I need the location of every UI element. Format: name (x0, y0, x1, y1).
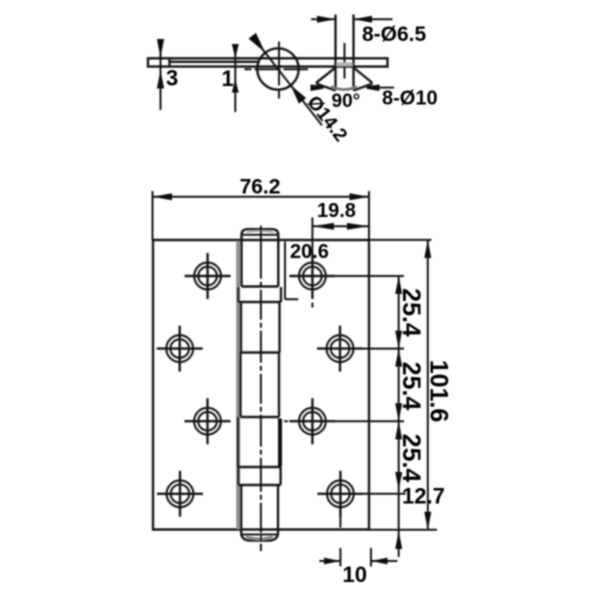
row extension line 3 (284, 420, 404, 422)
leaf inner step line (170, 58, 259, 66)
svg-text:25.4: 25.4 (397, 362, 425, 411)
svg-text:90°: 90° (332, 91, 361, 112)
screw hole R4 (317, 471, 363, 517)
plate top edge extension (369, 239, 432, 241)
screw hole R2 (317, 326, 363, 372)
svg-text:8-Ø6.5: 8-Ø6.5 (362, 23, 427, 46)
svg-text:20.6: 20.6 (290, 241, 329, 263)
chain arrows row2-row3 (395, 349, 402, 422)
label 25.4 second (397, 362, 425, 411)
bearing ring 1 (238, 287, 281, 302)
knuckle segment C (241, 353, 280, 418)
bearing ring 2 (238, 467, 280, 485)
row extension line 2 (363, 348, 404, 350)
label 101.6 (425, 360, 453, 423)
svg-text:25.4: 25.4 (397, 288, 425, 337)
svg-text:12.7: 12.7 (402, 484, 445, 509)
chain arrows row1-row2 (395, 276, 402, 349)
dia 14.2 leader line (249, 33, 322, 126)
leader line for 20.6 / hole column (311, 218, 313, 308)
row extension line 4 (363, 493, 405, 495)
dimension 3 (leaf pair thickness) (157, 39, 178, 110)
plate bottom edge extension (369, 529, 437, 531)
leader arrow lower (291, 85, 306, 103)
knuckle segment B (241, 302, 280, 353)
screw hole L2 (157, 326, 203, 372)
screw hole L4 (157, 471, 203, 517)
row extension line 1 (335, 275, 404, 277)
screw head bottom arc (gray) (331, 87, 357, 90)
barrel top dome (242, 229, 279, 235)
label dia 14.2 (rotated) (303, 92, 351, 146)
barrel bottom dome (241, 535, 278, 541)
dimension 8-dia10 arrows and label (311, 85, 438, 110)
knuckle vertical center line (278, 42, 280, 99)
countersink cone right (354, 68, 373, 91)
barrel center line (260, 226, 262, 551)
svg-text:76.2: 76.2 (240, 176, 281, 199)
screw hole R3 (289, 398, 335, 444)
label 25.4 first (397, 288, 425, 337)
hinge plate outline (153, 240, 369, 530)
knuckle segment D (ring edge thick) (238, 417, 282, 467)
barrel left shadow band (236, 241, 240, 529)
countersunk hole walls (8-dia6.5 extension lines) (336, 15, 354, 91)
20.6 reference lines (285, 241, 329, 299)
svg-text:3: 3 (166, 66, 178, 91)
knuckle segment A (242, 235, 279, 287)
knuckle circle (257, 48, 298, 89)
countersunk hole center line (344, 43, 346, 79)
screw hole L3 (185, 398, 231, 444)
svg-text:8-Ø10: 8-Ø10 (382, 88, 438, 110)
dimension 10 (bottom) (319, 516, 397, 587)
dimension 1 (single leaf thickness) (222, 44, 239, 112)
outer dimension 101.6 line (424, 240, 431, 530)
dimension 19.8 (312, 200, 368, 230)
svg-text:25.4: 25.4 (397, 434, 425, 483)
dimension 76.2 (153, 176, 370, 241)
chain arrows row3-row4 (395, 421, 402, 490)
knuckle horizontal center line (245, 68, 309, 70)
dimension 8-dia6.5 line and arrows (311, 16, 427, 46)
svg-text:101.6: 101.6 (425, 360, 453, 423)
hinge leaf bar outline (section) (148, 58, 388, 66)
leader arrow upper (249, 33, 266, 53)
screw hole R1 (289, 253, 335, 299)
screw hole L1 (185, 253, 231, 299)
screw section gray band (337, 62, 353, 66)
countersink cone left (316, 68, 336, 91)
knuckle segment E (241, 485, 278, 535)
joint line 1 (242, 285, 279, 287)
svg-text:19.8: 19.8 (317, 200, 356, 222)
label 25.4 third (397, 434, 425, 483)
dimension 12.7 bottom arrow (395, 484, 445, 558)
svg-text:10: 10 (343, 562, 367, 587)
inner dimension chain line (398, 276, 400, 531)
svg-text:1: 1 (222, 66, 234, 91)
